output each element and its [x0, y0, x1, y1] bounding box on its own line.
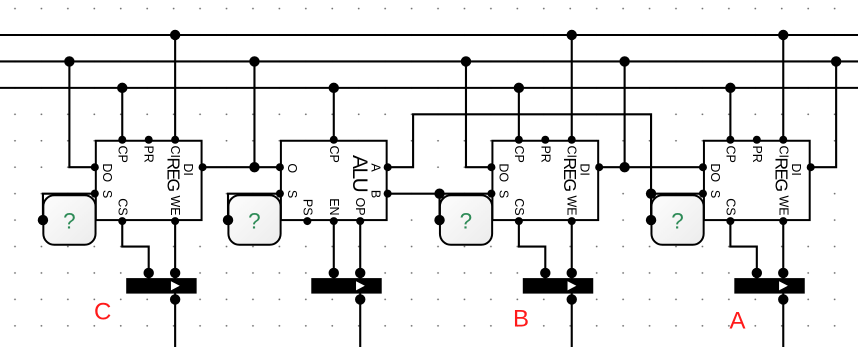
- svg-text:?: ?: [671, 208, 684, 233]
- svg-text:?: ?: [63, 208, 76, 233]
- svg-text:WE: WE: [776, 195, 790, 215]
- svg-text:OP: OP: [353, 198, 367, 216]
- svg-text:C: C: [94, 299, 111, 326]
- svg-text:REG: REG: [163, 157, 183, 191]
- svg-text:CP: CP: [723, 145, 737, 162]
- svg-text:CP: CP: [512, 145, 526, 162]
- svg-text:REG: REG: [560, 157, 580, 191]
- svg-text:ALU: ALU: [348, 155, 371, 192]
- svg-text:S: S: [496, 190, 510, 198]
- svg-text:REG: REG: [772, 157, 792, 191]
- svg-text:PR: PR: [538, 145, 552, 162]
- svg-text:PS: PS: [300, 199, 314, 216]
- svg-text:CP: CP: [115, 145, 129, 162]
- svg-text:CP: CP: [327, 145, 341, 162]
- svg-text:EN: EN: [327, 198, 341, 215]
- svg-text:WE: WE: [168, 195, 182, 215]
- svg-text:CI: CI: [776, 145, 790, 158]
- svg-text:CS: CS: [115, 198, 129, 215]
- svg-text:S: S: [708, 190, 722, 198]
- svg-text:DO: DO: [100, 163, 114, 182]
- svg-text:CS: CS: [723, 198, 737, 215]
- svg-text:DO: DO: [496, 163, 510, 182]
- svg-text:S: S: [100, 190, 114, 198]
- svg-text:DO: DO: [708, 163, 722, 182]
- svg-text:?: ?: [460, 208, 473, 233]
- svg-text:CI: CI: [565, 145, 579, 158]
- svg-text:PR: PR: [142, 145, 156, 162]
- svg-text:O: O: [285, 163, 299, 173]
- svg-text:B: B: [513, 306, 529, 333]
- svg-text:?: ?: [248, 208, 261, 233]
- svg-text:A: A: [730, 308, 746, 335]
- svg-text:CI: CI: [168, 145, 182, 158]
- svg-text:S: S: [285, 190, 299, 198]
- svg-text:WE: WE: [565, 195, 579, 215]
- svg-text:PR: PR: [750, 145, 764, 162]
- svg-text:CS: CS: [512, 198, 526, 215]
